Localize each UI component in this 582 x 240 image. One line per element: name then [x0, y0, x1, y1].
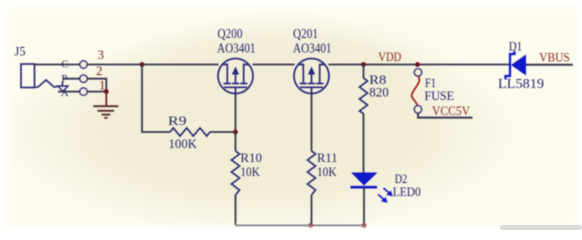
J5 lever spring contact — [35, 80, 58, 88]
svg-text:10K: 10K — [240, 164, 260, 179]
svg-text:100K: 100K — [169, 136, 198, 151]
wire: Q200 to Q201 — [253, 64, 295, 66]
svg-text:Q201: Q201 — [293, 26, 318, 41]
wire: J5 pin 2 row — [63, 79, 106, 92]
svg-text:D1: D1 — [509, 39, 523, 54]
svg-text:AO3401: AO3401 — [293, 40, 332, 55]
svg-text:Q200: Q200 — [218, 26, 243, 41]
junction dot: R8 branch — [361, 62, 366, 67]
junction dot: gate node R9/R10 — [233, 130, 238, 135]
svg-text:10K: 10K — [317, 164, 337, 179]
svg-text:R11: R11 — [317, 150, 338, 165]
resistor R11 — [308, 151, 316, 195]
diode D1 cathode Schottky bar — [506, 51, 515, 80]
fuse F1 top pin circle — [414, 69, 422, 77]
wire: R8 to LED D2 — [363, 114, 365, 173]
svg-text:C: C — [61, 60, 68, 71]
connector J5 body — [21, 64, 35, 88]
J5 switch contact stem — [61, 82, 63, 87]
wire: F1 to VCC5V port — [418, 113, 473, 118]
wire: R10 to bottom rail — [235, 132, 237, 151]
junction dot: pins 1-2 to ground — [104, 89, 109, 94]
svg-text:AO3401: AO3401 — [217, 40, 256, 55]
junction dot: rail R11 — [308, 223, 313, 228]
J5 pin circle 3 — [80, 61, 88, 69]
wire: left branch down to R9 — [142, 65, 170, 133]
svg-text:VDD: VDD — [378, 49, 401, 64]
transistor Q201 (mirrored symbol) — [294, 59, 329, 94]
svg-text:FUSE: FUSE — [425, 88, 455, 103]
fuse F1 bottom pin circle — [414, 106, 422, 114]
fuse F1 element — [412, 76, 420, 105]
ground bar 3 — [102, 114, 111, 116]
J5 pin circle 2 — [80, 75, 88, 83]
ground bar 1 — [93, 105, 118, 107]
LED D2 body — [351, 173, 378, 186]
svg-text:3: 3 — [98, 47, 105, 62]
junction dot: F1 branch — [415, 62, 420, 67]
wire: J5 tip (pin 3) to Q200 source, main rail left — [34, 64, 219, 66]
svg-text:2: 2 — [96, 63, 103, 78]
svg-text:J5: J5 — [15, 44, 26, 59]
wire: R9 to gate node — [210, 131, 236, 133]
junction dot: main rail left branch — [140, 62, 145, 67]
svg-text:P: P — [61, 74, 67, 85]
wire: D1 anode to VBUS end — [526, 64, 574, 66]
ground stem — [105, 92, 107, 106]
svg-text:VBUS: VBUS — [539, 49, 570, 64]
resistor R10 — [232, 151, 240, 195]
svg-text:R10: R10 — [240, 150, 262, 165]
bottom rail wire — [236, 225, 365, 227]
wire: R11 to bottom rail — [311, 195, 313, 226]
wire: D2 cathode to bottom rail — [363, 187, 365, 225]
wire: Q200 gate down — [235, 94, 237, 133]
wire: Q201 gate down to R11 — [311, 94, 313, 152]
resistor R9 — [170, 128, 210, 136]
svg-text:LED0: LED0 — [393, 184, 421, 199]
J5 switch contact triangle — [58, 86, 68, 91]
LED D2 emission arrow 1 — [384, 188, 393, 196]
junction dot: rail D2 — [361, 223, 366, 228]
wire: R8 top lead — [363, 65, 365, 79]
J5 pin circle 1 — [80, 88, 88, 96]
wire: Q201 to D1 (VDD rail) — [329, 64, 511, 66]
resistor R8 — [360, 78, 368, 114]
edge fades to white (photo border) — [0, 0, 582, 14]
ground bar 4 — [104, 117, 107, 119]
svg-text:VCC5V: VCC5V — [432, 103, 471, 118]
transistor Q200 — [218, 59, 253, 94]
watermark strip bottom right — [500, 225, 582, 230]
svg-text:A: A — [61, 88, 69, 99]
svg-text:LL5819: LL5819 — [498, 76, 544, 91]
svg-text:R9: R9 — [168, 113, 187, 128]
wire: J5 pin 1 row — [58, 91, 106, 93]
diode D1 body — [511, 55, 526, 76]
LED D2 cathode bar — [351, 186, 378, 189]
LED D2 emission arrow 2 — [378, 195, 387, 203]
svg-text:820: 820 — [369, 85, 389, 100]
ground bar 2 — [98, 110, 115, 112]
